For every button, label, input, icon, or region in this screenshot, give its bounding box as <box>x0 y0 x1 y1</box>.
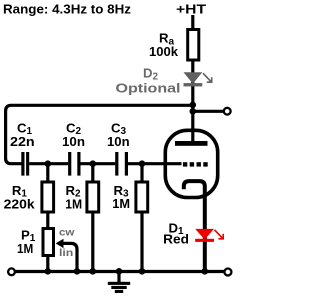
svg-text:1M: 1M <box>17 241 33 256</box>
svg-text:100k: 100k <box>149 44 179 59</box>
svg-text:Range: 4.3Hz to 8Hz: Range: 4.3Hz to 8Hz <box>3 2 131 17</box>
svg-text:220k: 220k <box>4 197 36 212</box>
svg-text:Optional: Optional <box>116 80 181 95</box>
svg-text:10n: 10n <box>62 134 85 149</box>
svg-text:cw: cw <box>59 227 75 238</box>
svg-text:22n: 22n <box>10 134 35 149</box>
svg-text:Red: Red <box>163 232 189 247</box>
svg-text:+HT: +HT <box>176 1 206 16</box>
svg-text:1M: 1M <box>112 196 130 211</box>
svg-text:10n: 10n <box>107 134 130 149</box>
svg-text:1M: 1M <box>65 197 82 212</box>
svg-text:lin: lin <box>59 247 73 259</box>
